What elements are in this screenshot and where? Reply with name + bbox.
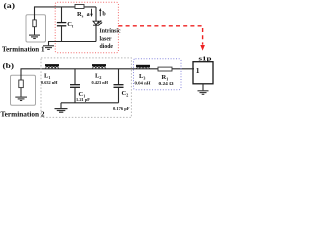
- wire top (a): [35, 7, 97, 20]
- ground (b): [60, 103, 62, 108]
- svg-text:Intrinsic: Intrinsic: [100, 28, 121, 35]
- resistor Rs: [75, 5, 84, 9]
- ground (a): [43, 46, 54, 50]
- capacitor Ct: [57, 23, 66, 26]
- svg-text:Termination 1: Termination 1: [2, 44, 45, 53]
- ground (termination 2): [15, 97, 27, 100]
- svg-text:1.21 pF: 1.21 pF: [76, 97, 90, 102]
- svg-text:0.423 nH: 0.423 nH: [92, 80, 109, 85]
- gray dashed box (package parasitics): [41, 58, 131, 118]
- inductor L1: [45, 64, 59, 66]
- svg-text:0.24 Ω: 0.24 Ω: [159, 81, 175, 86]
- inductor L3: [136, 65, 150, 67]
- bottom rail (b): [61, 102, 119, 104]
- svg-text:laser: laser: [100, 36, 112, 43]
- resistor (termination 2): [19, 80, 24, 88]
- bottom wire (a): [49, 42, 97, 46]
- termination 1 box: [26, 15, 46, 42]
- resistor (termination 1): [33, 20, 37, 27]
- svg-text:Termination 2: Termination 2: [1, 109, 45, 118]
- wire: [34, 27, 36, 35]
- red dashed box (package): [55, 2, 118, 53]
- capacitor Ct stem: [61, 7, 63, 22]
- ground (s1p): [202, 84, 204, 91]
- capacitor C2: [114, 85, 124, 88]
- wire: [20, 88, 22, 97]
- capacitor C2 stem: [118, 69, 120, 85]
- svg-text:0.04 nH: 0.04 nH: [135, 81, 152, 86]
- arrow b: [99, 10, 101, 16]
- capacitor C1 stem: [74, 69, 76, 85]
- ground (termination 1): [29, 35, 40, 38]
- laser diode: [93, 21, 101, 25]
- s1p box: [193, 62, 213, 84]
- svg-text:(a): (a): [4, 1, 16, 10]
- svg-text:0.632 nH: 0.632 nH: [41, 80, 58, 85]
- resistor R1: [158, 67, 172, 71]
- svg-text:0.176 pF: 0.176 pF: [113, 106, 130, 111]
- inductor L2: [92, 64, 106, 66]
- wire: [61, 26, 63, 41]
- svg-text:1: 1: [196, 66, 200, 75]
- wire right side of loop: [95, 7, 97, 42]
- svg-text:a: a: [87, 12, 90, 18]
- termination 2 box: [11, 75, 36, 105]
- svg-text:diode: diode: [100, 43, 114, 50]
- main wire (b): [21, 69, 194, 80]
- red dashed connector to s1p: [118, 26, 202, 45]
- blue dashed box: [134, 59, 182, 90]
- svg-text:(b): (b): [3, 61, 15, 70]
- capacitor C1: [70, 85, 80, 88]
